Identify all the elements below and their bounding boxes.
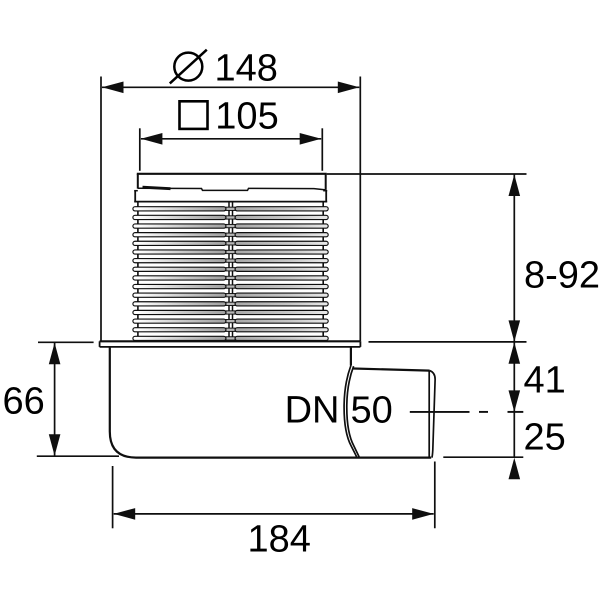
label DN 50 bbox=[285, 389, 393, 431]
dimension text 25 bbox=[524, 417, 566, 459]
svg-text:8-92: 8-92 bbox=[524, 255, 600, 297]
extension line 184 left bbox=[112, 466, 114, 528]
outlet pipe top edge bbox=[353, 369, 429, 371]
svg-text:41: 41 bbox=[524, 360, 566, 402]
arrow down at centerline bbox=[509, 390, 521, 412]
arrow down at flange top bbox=[509, 320, 521, 342]
dimension text 105 bbox=[215, 96, 278, 138]
diameter symbol bbox=[170, 50, 207, 84]
extension line from flange top bbox=[369, 341, 527, 343]
arrow up at plate top bbox=[509, 175, 521, 197]
extension line 66 top bbox=[38, 341, 94, 343]
dimension 184 line with arrows bbox=[114, 508, 434, 520]
dimension text 148 bbox=[215, 48, 278, 90]
svg-text:105: 105 bbox=[215, 96, 278, 138]
dimension text 8-92 bbox=[524, 255, 600, 297]
riser upper band bbox=[134, 190, 327, 201]
arrow up below pipe bottom bbox=[509, 458, 521, 480]
body to outlet transition curve inner bbox=[347, 366, 359, 457]
dimension 8-92 vertical line bbox=[513, 174, 515, 458]
riser center seam bbox=[229, 202, 233, 342]
dimension 105 line with arrows bbox=[141, 133, 321, 145]
square symbol bbox=[180, 101, 208, 129]
svg-text:25: 25 bbox=[524, 417, 566, 459]
riser corrugated ribs bbox=[133, 207, 328, 341]
svg-text:50: 50 bbox=[351, 389, 393, 431]
grate top plate bbox=[137, 174, 327, 191]
svg-text:148: 148 bbox=[215, 48, 278, 90]
body to outlet transition curve outer bbox=[344, 366, 357, 457]
drain body tub outline bbox=[110, 347, 431, 458]
dimension 66 vertical line with arrows bbox=[49, 342, 61, 456]
dimension Ø148 extension line left bbox=[100, 77, 102, 342]
dimension 105 extension line left bbox=[139, 128, 141, 171]
arrow up at flange top bbox=[509, 342, 521, 364]
dimension 105 extension line right bbox=[321, 128, 323, 171]
dimension text 184 bbox=[248, 518, 311, 560]
svg-text:66: 66 bbox=[3, 381, 45, 423]
extension line from pipe bottom bbox=[443, 456, 523, 458]
flange bbox=[100, 341, 361, 347]
outlet pipe end face bbox=[429, 371, 435, 458]
svg-text:184: 184 bbox=[248, 518, 311, 560]
riser wall lines bbox=[138, 202, 323, 341]
dimension text 66 bbox=[3, 381, 45, 423]
dimension text 41 bbox=[524, 360, 566, 402]
extension line from plate top bbox=[327, 173, 527, 175]
pipe centerline dash-dot bbox=[410, 411, 524, 413]
extension line 184 right bbox=[434, 462, 436, 529]
dimension Ø148 extension line right bbox=[359, 77, 361, 342]
dimension Ø148 line with arrows bbox=[102, 82, 359, 94]
extension line 66 bottom bbox=[37, 455, 119, 457]
svg-text:DN: DN bbox=[285, 389, 340, 431]
